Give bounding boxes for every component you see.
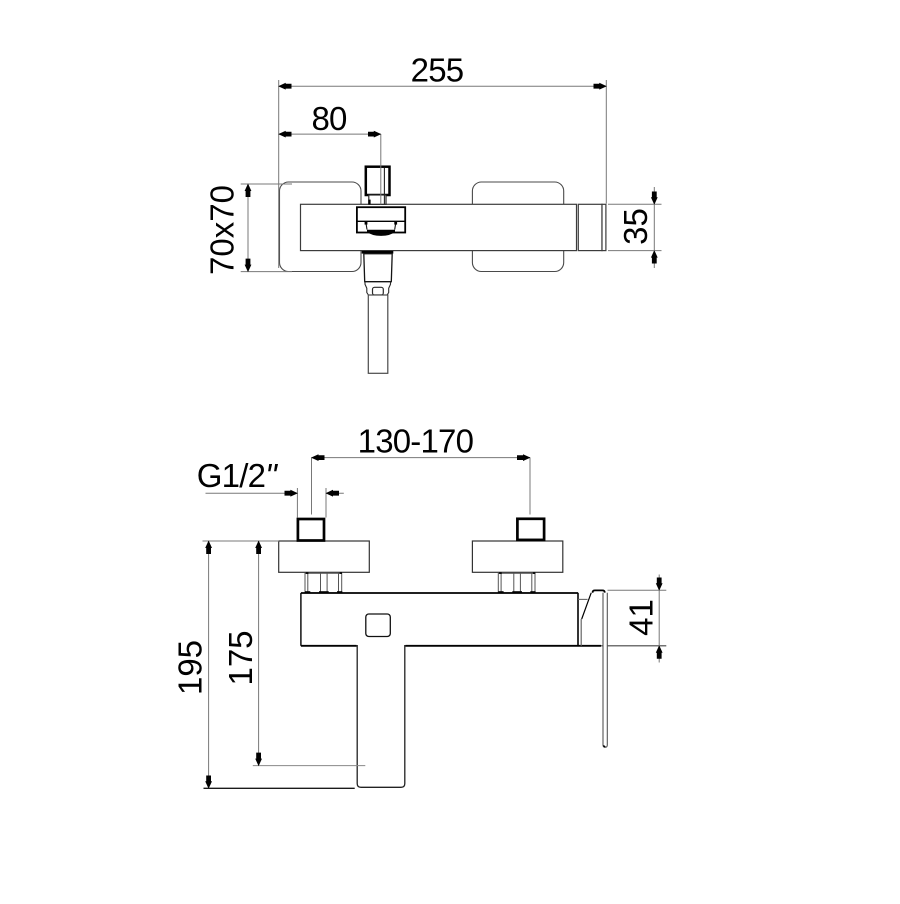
svg-text:35: 35 xyxy=(617,208,654,245)
spout (front view) xyxy=(357,645,405,787)
hex nut left xyxy=(305,572,342,593)
svg-text:70x70: 70x70 xyxy=(204,185,241,275)
handle lever xyxy=(603,593,607,748)
handle base diagonal xyxy=(582,593,592,619)
lever bottom tick xyxy=(603,746,605,748)
wall plate left (top view) xyxy=(280,182,362,272)
dimension 70x70 xyxy=(204,184,293,275)
svg-text:175: 175 xyxy=(222,630,259,685)
dimension 175 xyxy=(222,541,365,766)
escutcheon right (front view) xyxy=(472,541,562,572)
cartridge inner side lines xyxy=(366,225,395,230)
mixer body bar (top view) xyxy=(301,204,577,250)
spout neck inner square xyxy=(373,287,384,295)
hex nut right xyxy=(498,572,535,593)
logo plate on body xyxy=(366,614,391,637)
dimension 255 xyxy=(279,51,607,268)
cartridge housing under diverter (top view) xyxy=(357,207,405,232)
cartridge corner tick right xyxy=(394,222,397,225)
spout neck detail (top view) xyxy=(365,282,391,295)
shower hose end cap (top view) xyxy=(578,204,606,250)
svg-text:255: 255 xyxy=(411,51,464,88)
wall plate right (top view) xyxy=(472,182,563,272)
dimension 41 xyxy=(608,575,667,663)
handle base left edge xyxy=(580,619,582,646)
escutcheon left (front view) xyxy=(279,541,370,572)
inlet connector right G1/2 xyxy=(517,519,544,540)
handle base step xyxy=(578,598,588,600)
cartridge black seal arc xyxy=(367,230,395,236)
svg-text:80: 80 xyxy=(311,100,347,137)
svg-text:130-170: 130-170 xyxy=(358,423,474,460)
41 dim bottom extension line xyxy=(601,645,666,647)
diverter rod line xyxy=(383,168,385,204)
svg-text:G1/2": G1/2" xyxy=(197,457,278,494)
stem black tick xyxy=(368,200,370,205)
spout flange black band (top view) xyxy=(362,251,394,254)
cartridge corner tick left xyxy=(365,222,368,225)
dimension 35 xyxy=(608,187,662,268)
diverter stem (top view) xyxy=(369,195,386,204)
handle cap xyxy=(593,590,605,592)
mixer body (front view) xyxy=(301,593,601,646)
svg-text:195: 195 xyxy=(172,640,209,695)
spout housing (top view) xyxy=(364,254,392,282)
hand shower tube (top view) xyxy=(368,295,388,373)
diverter knob (top view) xyxy=(366,167,390,195)
cartridge divider line xyxy=(357,220,405,222)
dimension 80 xyxy=(279,100,381,205)
inlet connector left G1/2 xyxy=(298,519,324,541)
dimension 195 xyxy=(172,541,355,788)
dimension G1/2" xyxy=(197,457,344,517)
svg-text:41: 41 xyxy=(623,599,660,636)
dimension 130-170 xyxy=(312,423,531,515)
